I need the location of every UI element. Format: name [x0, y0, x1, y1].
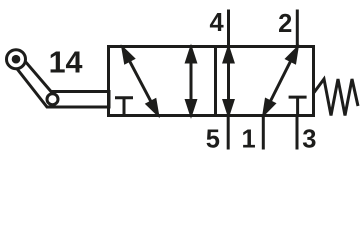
svg-text:4: 4 — [210, 9, 225, 37]
svg-text:2: 2 — [278, 10, 292, 38]
pivot dot — [12, 55, 21, 64]
pivot circle — [7, 50, 26, 69]
lever bar and plunger rod — [12, 55, 109, 107]
spring return — [314, 79, 358, 116]
port 2 stub — [296, 10, 299, 48]
blocked port T right (port 3, rest box) — [289, 96, 307, 99]
roller R — [47, 94, 58, 105]
flow arrow 1-2 (right box diagonal) — [269, 58, 292, 104]
port 4 stub — [227, 10, 230, 48]
port 3 stub — [296, 115, 299, 150]
flow arrow 1-4 (left box diagonal) — [128, 58, 152, 104]
flow arrow 2-3 (left box vertical) — [190, 60, 193, 104]
valve body box — [109, 47, 314, 116]
flow arrow 4-5 (right box vertical) — [227, 60, 230, 104]
port 1 stub — [262, 115, 265, 150]
svg-text:3: 3 — [302, 126, 316, 154]
svg-text:14: 14 — [49, 46, 83, 80]
svg-text:1: 1 — [242, 126, 256, 154]
blocked port T left (port 5, actuated box) — [115, 96, 133, 99]
box divider — [214, 45, 217, 117]
svg-text:5: 5 — [206, 125, 220, 153]
port 5 stub — [227, 115, 230, 150]
